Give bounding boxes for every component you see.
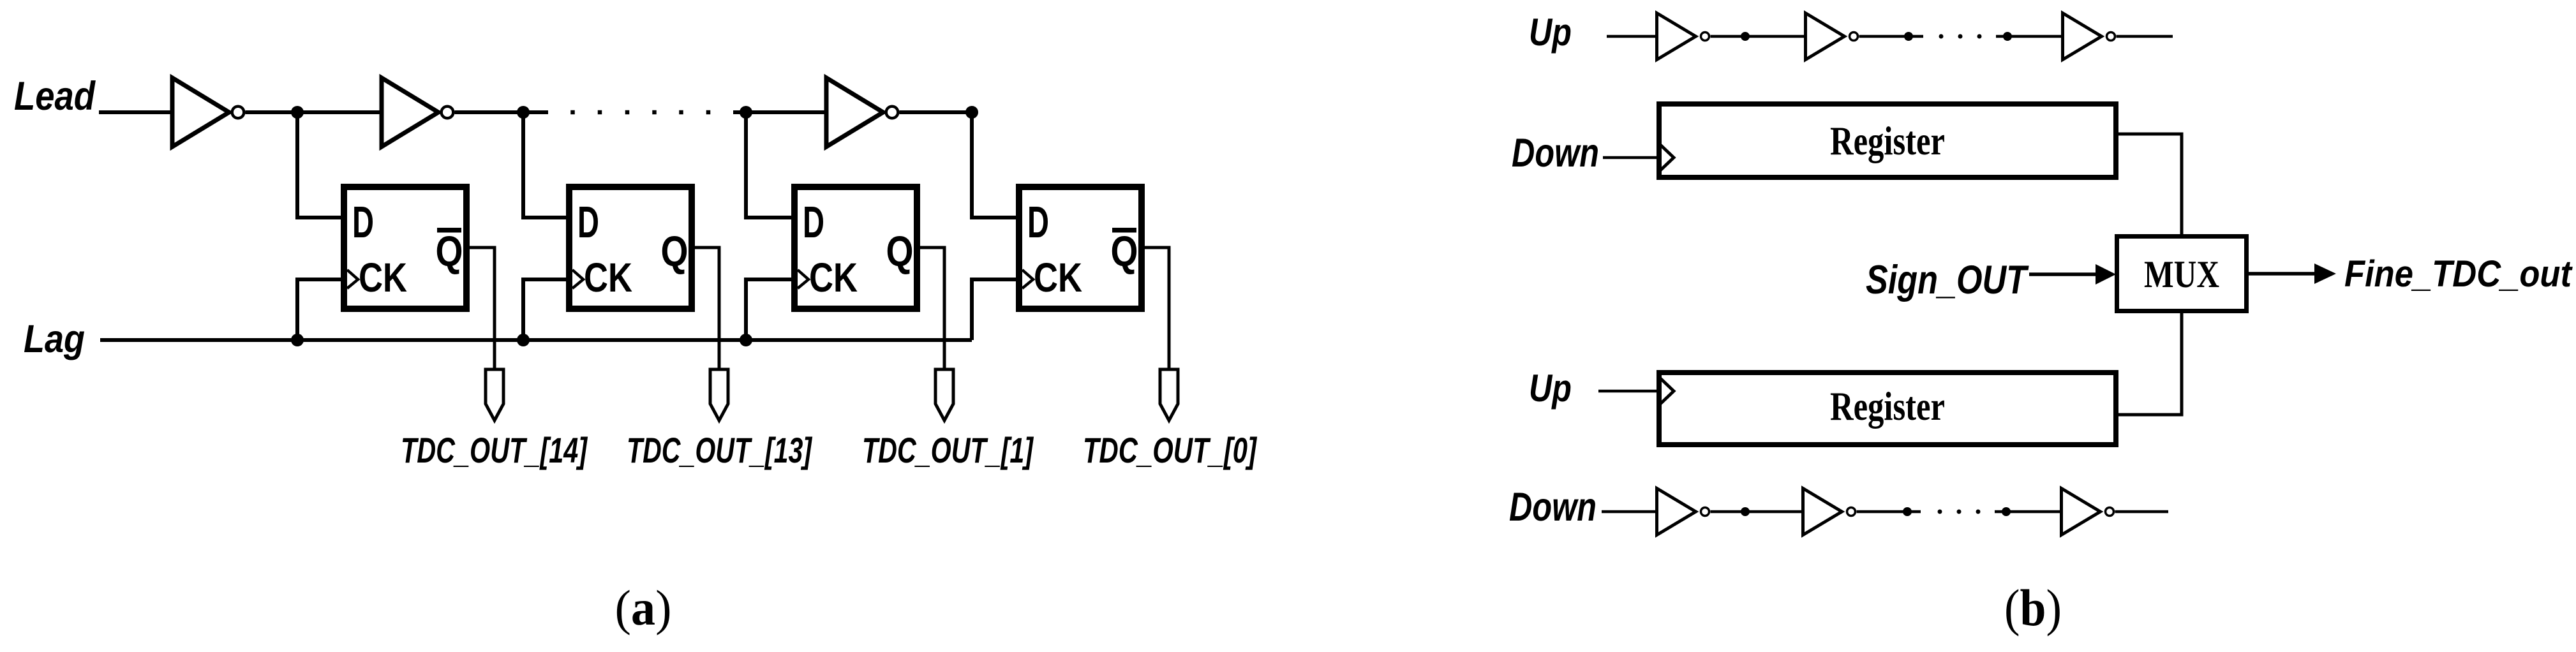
svg-text:D: D — [803, 197, 824, 247]
svg-text:TDC_OUT_[0]: TDC_OUT_[0] — [1083, 430, 1258, 470]
svg-text:TDC_OUT_[14]: TDC_OUT_[14] — [401, 430, 588, 470]
svg-text:Lag: Lag — [24, 317, 85, 360]
svg-text:Up: Up — [1529, 11, 1572, 54]
svg-text:Q: Q — [1111, 228, 1138, 276]
svg-text:D: D — [577, 197, 599, 247]
svg-text:Lead: Lead — [14, 74, 96, 119]
svg-text:D: D — [352, 197, 374, 247]
svg-text:TDC_OUT_[1]: TDC_OUT_[1] — [862, 430, 1034, 470]
svg-text:CK: CK — [584, 255, 632, 300]
svg-text:CK: CK — [359, 255, 407, 300]
svg-text:TDC_OUT_[13]: TDC_OUT_[13] — [627, 430, 813, 470]
svg-text:CK: CK — [1034, 255, 1082, 300]
svg-text:Down: Down — [1512, 131, 1599, 175]
svg-text:Register: Register — [1830, 383, 1945, 429]
svg-text:D: D — [1027, 197, 1049, 247]
svg-text:Up: Up — [1529, 367, 1572, 410]
svg-text:MUX: MUX — [2144, 253, 2219, 295]
svg-text:(a): (a) — [615, 580, 672, 635]
svg-text:Q: Q — [661, 228, 689, 276]
svg-text:Fine_TDC_out: Fine_TDC_out — [2344, 253, 2573, 295]
svg-text:Q: Q — [436, 228, 463, 276]
svg-text:(b): (b) — [2004, 579, 2062, 637]
svg-text:Q: Q — [886, 228, 914, 276]
svg-text:Register: Register — [1830, 118, 1945, 163]
svg-text:Sign_OUT: Sign_OUT — [1866, 258, 2029, 302]
svg-text:Down: Down — [1509, 485, 1597, 530]
svg-text:CK: CK — [809, 255, 858, 300]
